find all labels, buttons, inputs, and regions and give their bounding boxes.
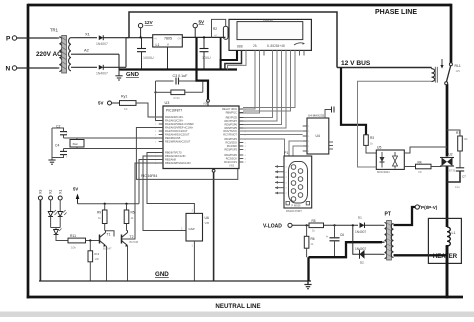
svg-text:0.1u: 0.1u bbox=[455, 186, 460, 189]
svg-text:RA0/AN0/C1IN-: RA0/AN0/C1IN- bbox=[165, 115, 183, 119]
terminal X1 bbox=[58, 190, 62, 212]
svg-text:U3: U3 bbox=[165, 101, 170, 105]
svg-text:RE0/RD/AN5: RE0/RD/AN5 bbox=[165, 136, 181, 140]
label PHASE LINE bbox=[375, 9, 417, 16]
svg-text:VSS: VSS bbox=[229, 164, 234, 168]
wire heater inner bbox=[446, 219, 449, 297]
svg-text:TR1: TR1 bbox=[50, 28, 59, 33]
svg-text:P: P bbox=[6, 36, 11, 43]
resistor R5 bbox=[309, 219, 358, 233]
svg-text:X1: X1 bbox=[59, 190, 63, 194]
diode D1 1N4007 bbox=[355, 215, 382, 234]
svg-text:CK: CK bbox=[418, 170, 422, 174]
wire chip to T2 base bbox=[122, 163, 164, 239]
resistor R9 bbox=[97, 204, 107, 231]
svg-text:VDD: VDD bbox=[203, 102, 209, 106]
svg-text:RD6/PSP6: RD6/PSP6 bbox=[224, 123, 237, 127]
wire LCD pin3 bbox=[228, 50, 247, 69]
svg-text:BC548: BC548 bbox=[130, 240, 139, 244]
capacitor C2 bbox=[52, 125, 68, 139]
terminal P I/P-V bbox=[415, 205, 438, 210]
wire phase right mid bbox=[446, 84, 449, 157]
wire GND bus bbox=[119, 68, 237, 70]
wire LCD pin1 gnd bbox=[221, 50, 237, 69]
terminal X2 bbox=[49, 190, 53, 212]
svg-text:RB1/AN10/C12IN: RB1/AN10/C12IN bbox=[165, 154, 185, 158]
label GND bbox=[155, 271, 169, 278]
svg-text:+I: +I bbox=[154, 36, 157, 40]
heater box bbox=[428, 218, 461, 263]
svg-text:25.: 25. bbox=[253, 44, 258, 48]
ground symbol psu bbox=[115, 70, 122, 81]
svg-text:MOC3021: MOC3021 bbox=[377, 170, 390, 174]
wire LCD d4 bbox=[239, 50, 273, 117]
svg-text:R2: R2 bbox=[213, 27, 217, 31]
svg-text:RB6/PGC: RB6/PGC bbox=[226, 111, 238, 115]
wire mains left vertical bbox=[27, 4, 30, 299]
chip VSS wire bbox=[212, 169, 215, 282]
ground symbol bottom bbox=[304, 281, 311, 289]
svg-text:N: N bbox=[6, 66, 11, 73]
LED D5 bbox=[54, 229, 68, 241]
relay RL1 contact bbox=[440, 59, 460, 85]
svg-text:D1: D1 bbox=[358, 215, 362, 219]
resistor R4 bbox=[404, 161, 441, 175]
svg-text:GND: GND bbox=[155, 271, 169, 278]
wire LCD bl1 bbox=[243, 50, 291, 111]
svg-text:R5: R5 bbox=[131, 211, 135, 215]
wire chip pd a bbox=[239, 139, 285, 156]
diode X1 1N4007 bbox=[77, 32, 129, 47]
terminal P bbox=[6, 36, 58, 43]
svg-text:R3: R3 bbox=[370, 136, 374, 140]
svg-text:V/B: V/B bbox=[205, 221, 210, 225]
svg-text:L1: L1 bbox=[452, 231, 456, 235]
svg-text:RC4/SDI: RC4/SDI bbox=[227, 144, 238, 148]
connector P1 DB9 bbox=[275, 151, 312, 213]
svg-text:R 2: R 2 bbox=[95, 252, 100, 256]
svg-text:D2: D2 bbox=[360, 261, 364, 265]
svg-text:1N4007: 1N4007 bbox=[96, 72, 108, 76]
LCD pin stubs bbox=[237, 50, 304, 55]
svg-text:P1: P1 bbox=[284, 151, 288, 155]
wire max to p1 b bbox=[293, 146, 303, 156]
resistor R12 bbox=[88, 241, 100, 282]
svg-text:RD2/PSP2: RD2/PSP2 bbox=[224, 153, 237, 157]
wire chip to U6 in bbox=[143, 156, 186, 231]
wire t1 collector t2 bbox=[106, 231, 115, 237]
wire LCD en bbox=[239, 50, 260, 113]
svg-text:Xtal: Xtal bbox=[73, 142, 78, 146]
wire chip rx bbox=[239, 134, 303, 136]
capacitor C1 1000u bbox=[137, 37, 154, 69]
wire mclr bbox=[136, 103, 163, 117]
wire max to p1 a bbox=[289, 141, 303, 156]
svg-text:R 01: R 01 bbox=[174, 96, 181, 100]
svg-text:12 V BUS: 12 V BUS bbox=[341, 60, 371, 67]
svg-text:RB2/AN8: RB2/AN8 bbox=[165, 158, 176, 162]
svg-text:NEUTRAL LINE: NEUTRAL LINE bbox=[215, 303, 260, 310]
transistor T2 BC548 bbox=[122, 231, 139, 282]
svg-text:888: 888 bbox=[237, 45, 243, 49]
label 12 V BUS bbox=[341, 60, 371, 67]
svg-text:C3 0.1uF: C3 0.1uF bbox=[173, 74, 189, 78]
label HEATER bbox=[433, 254, 458, 260]
svg-text:5V: 5V bbox=[98, 101, 103, 106]
svg-text:RA4/T0CKI/C1OUT: RA4/T0CKI/C1OUT bbox=[165, 129, 188, 133]
capacitor C4 bbox=[52, 144, 68, 160]
svg-text:100: 100 bbox=[95, 257, 100, 261]
svg-text:RC6/TX/CK: RC6/TX/CK bbox=[223, 129, 237, 133]
svg-text:C6: C6 bbox=[340, 233, 344, 237]
svg-text:P(I/P-V): P(I/P-V) bbox=[421, 205, 438, 210]
svg-text:5V: 5V bbox=[199, 20, 206, 25]
resistor R2 bbox=[212, 19, 229, 39]
svg-text:1N4007: 1N4007 bbox=[96, 42, 108, 46]
svg-text:RD3/PSP3: RD3/PSP3 bbox=[224, 148, 237, 152]
svg-text:U6: U6 bbox=[205, 216, 209, 220]
wire center tap bbox=[77, 48, 119, 70]
crystal X1 box bbox=[70, 138, 84, 149]
transformer TR1 bbox=[36, 28, 77, 74]
wire LCD rs bbox=[239, 50, 255, 109]
svg-text:Ry1: Ry1 bbox=[121, 95, 127, 99]
wire chip wrap under bbox=[136, 128, 237, 180]
svg-text:RC3/SCK: RC3/SCK bbox=[226, 157, 238, 161]
diode D2 1N4007 bbox=[353, 225, 382, 264]
svg-text:PHASE LINE: PHASE LINE bbox=[375, 9, 417, 16]
wire LCD pin2 5v bbox=[225, 50, 242, 69]
svg-text:RL1: RL1 bbox=[455, 64, 461, 68]
wire PT primary bottom bbox=[394, 254, 448, 256]
svg-text:12V: 12V bbox=[456, 69, 461, 73]
svg-text:7805: 7805 bbox=[164, 36, 172, 40]
resistor R1 bbox=[154, 81, 202, 100]
svg-text:RA3/AN3/VREF+/C1IN+: RA3/AN3/VREF+/C1IN+ bbox=[165, 126, 194, 130]
svg-text:C7: C7 bbox=[462, 175, 466, 179]
wire led join bbox=[51, 228, 61, 230]
wire chip rb2 bbox=[139, 160, 163, 204]
wire mclr filter bbox=[156, 81, 164, 121]
transformer PT bbox=[382, 212, 394, 261]
svg-text:12V: 12V bbox=[145, 20, 154, 25]
svg-text:100: 100 bbox=[464, 138, 469, 141]
wire LCD d7 bbox=[239, 50, 286, 128]
wire 12V rail bbox=[126, 37, 153, 39]
diode X2 1N4007 bbox=[77, 38, 126, 76]
svg-text:C4: C4 bbox=[55, 144, 59, 148]
svg-text:RC5/SDO: RC5/SDO bbox=[225, 141, 237, 145]
wire chip to U6 top bbox=[147, 153, 194, 214]
svg-text:RE1/WR/AN6/C2OUT: RE1/WR/AN6/C2OUT bbox=[165, 140, 191, 144]
wire r3 to opto bbox=[366, 145, 376, 153]
terminal 5V mclr bbox=[98, 101, 120, 106]
svg-text:R11: R11 bbox=[70, 234, 76, 238]
svg-text:R4: R4 bbox=[418, 161, 422, 165]
capacitor C5 100u bbox=[200, 36, 211, 69]
svg-text:RB0/INT/FLT0: RB0/INT/FLT0 bbox=[165, 151, 182, 155]
capacitor C6 bbox=[326, 225, 344, 257]
decorative bottom band bbox=[0, 312, 474, 318]
wire GND rail bbox=[39, 280, 311, 282]
terminal N bbox=[6, 66, 58, 73]
svg-text:RB3/AN9/PGM/C12IN: RB3/AN9/PGM/C12IN bbox=[165, 161, 191, 165]
svg-text:RA2/AN2/VREF-/CVREF: RA2/AN2/VREF-/CVREF bbox=[165, 122, 194, 126]
terminal 12V bbox=[138, 20, 153, 39]
svg-text:X2: X2 bbox=[49, 190, 53, 194]
svg-text:A2: A2 bbox=[84, 48, 90, 53]
wire phase right lower bbox=[446, 166, 449, 219]
transistor T1 BC547 bbox=[100, 231, 112, 282]
wire 5v rail bottom bbox=[78, 203, 140, 205]
capacitor C3 0.1uF bbox=[156, 74, 208, 85]
svg-text:1K: 1K bbox=[124, 107, 128, 111]
LED D4 bbox=[58, 210, 67, 228]
capacitor C7 bbox=[447, 151, 466, 189]
wire vload gnd bbox=[309, 242, 383, 281]
ground symbol xtal bbox=[48, 158, 55, 165]
wire 5V rail bbox=[182, 36, 225, 38]
wire 5V vdd bbox=[197, 37, 209, 99]
wire 12V drop to opto bbox=[341, 68, 366, 135]
svg-text:P M936: P M936 bbox=[292, 204, 301, 208]
triac U2 bbox=[440, 153, 456, 173]
svg-text:RA5/AN4/SS/C2OUT: RA5/AN4/SS/C2OUT bbox=[165, 133, 190, 137]
wire phase right bottom bbox=[446, 245, 449, 298]
svg-text:O+: O+ bbox=[178, 36, 182, 40]
wire LCD bl2 bbox=[243, 50, 295, 107]
svg-text:BT36: BT36 bbox=[449, 169, 456, 173]
wire 12V bus bbox=[337, 67, 432, 69]
svg-text:X3: X3 bbox=[39, 190, 43, 194]
inductor L1 heater bbox=[447, 227, 456, 246]
LED D3 bbox=[48, 210, 57, 228]
svg-text:5V: 5V bbox=[73, 187, 78, 192]
svg-text:RELAY /RC0: RELAY /RC0 bbox=[222, 107, 237, 111]
svg-text:1N4007: 1N4007 bbox=[355, 247, 366, 251]
terminal V-LOAD bbox=[263, 223, 309, 229]
wire osc1 bbox=[64, 137, 164, 139]
chip VDD pin bbox=[203, 99, 209, 106]
svg-text:M: M bbox=[167, 43, 169, 47]
svg-text:V-LOAD: V-LOAD bbox=[263, 223, 282, 229]
resistor Ry1 bbox=[120, 95, 137, 112]
svg-text:R7: R7 bbox=[456, 131, 460, 135]
wire phase line top bbox=[28, 4, 451, 7]
svg-text:U5: U5 bbox=[377, 146, 381, 150]
svg-text:100U: 100U bbox=[202, 56, 211, 60]
svg-text:U4: U4 bbox=[316, 134, 320, 138]
IC U6 bbox=[181, 210, 209, 282]
svg-text:RD7/PSP7: RD7/PSP7 bbox=[224, 119, 237, 123]
wire neutral line bottom bbox=[27, 296, 463, 299]
svg-text:10k: 10k bbox=[71, 246, 76, 250]
svg-text:+: + bbox=[326, 235, 328, 239]
wire osc2 bbox=[64, 148, 164, 150]
wire rail drop bbox=[220, 38, 222, 60]
svg-text:RA1/AN1/C2IN-: RA1/AN1/C2IN- bbox=[165, 119, 183, 123]
svg-text:R9: R9 bbox=[97, 211, 101, 215]
svg-text:U4 MAX232: U4 MAX232 bbox=[308, 114, 325, 118]
svg-text:T1: T1 bbox=[107, 233, 111, 237]
svg-text:U2: U2 bbox=[449, 153, 453, 157]
svg-text:HEATER: HEATER bbox=[433, 254, 458, 260]
wire chip tx bbox=[239, 130, 303, 132]
wire LCD d6 bbox=[239, 50, 282, 124]
svg-text:RC7/RX/DT: RC7/RX/DT bbox=[223, 133, 237, 137]
wire xtal gnd rail bbox=[51, 128, 53, 158]
svg-text:R5: R5 bbox=[312, 219, 316, 223]
wire phase right upper bbox=[450, 4, 453, 63]
svg-text:8..85284+48: 8..85284+48 bbox=[267, 44, 285, 48]
svg-text:RB7/PGD: RB7/PGD bbox=[226, 116, 238, 120]
resistor R11 bbox=[68, 234, 100, 250]
regulator U1 7805 bbox=[153, 35, 183, 70]
svg-text:T2: T2 bbox=[130, 235, 134, 239]
svg-text:BC547: BC547 bbox=[103, 247, 112, 251]
resistor R6 bbox=[304, 225, 315, 257]
svg-text:PT: PT bbox=[385, 212, 391, 218]
wire opto to phase bbox=[404, 147, 447, 153]
optocoupler U5 MOC3021 bbox=[376, 146, 404, 175]
wire relay net to opto bbox=[358, 81, 432, 167]
wire 12V loop bbox=[129, 12, 337, 68]
svg-text:GND: GND bbox=[126, 72, 139, 78]
relay RL1 coil bbox=[432, 67, 438, 83]
svg-text:RC2/CCP1: RC2/CCP1 bbox=[224, 160, 237, 164]
svg-text:220V AC: 220V AC bbox=[36, 51, 62, 58]
svg-text:LCD16: LCD16 bbox=[263, 18, 273, 22]
wire LCD d5 bbox=[239, 50, 277, 121]
svg-text:RD4/PSP4: RD4/PSP4 bbox=[224, 137, 237, 141]
svg-text:X1: X1 bbox=[85, 32, 91, 37]
label NEUTRAL LINE bbox=[215, 303, 260, 310]
svg-text:CAP: CAP bbox=[189, 227, 195, 231]
resistor R10 bbox=[124, 204, 135, 231]
wire PT primary top bbox=[394, 207, 416, 225]
svg-text:PIC16F877: PIC16F877 bbox=[166, 109, 182, 113]
resistor R7 bbox=[447, 130, 468, 151]
svg-text:L1: L1 bbox=[156, 43, 160, 47]
LCD module LCD16x2 bbox=[229, 18, 311, 50]
svg-text:1N4007: 1N4007 bbox=[355, 230, 366, 234]
microcontroller U3 bbox=[141, 101, 247, 178]
svg-text:RS232 PORT: RS232 PORT bbox=[286, 209, 302, 213]
resistor R3 bbox=[364, 135, 375, 146]
svg-text:R6: R6 bbox=[311, 237, 315, 241]
svg-text:1000U: 1000U bbox=[143, 56, 154, 60]
terminal X3 bbox=[38, 190, 42, 281]
terminal 5V bbox=[193, 20, 205, 38]
label GND psu bbox=[126, 72, 139, 78]
terminal 5V bottom bbox=[73, 187, 79, 204]
IC U4 MAX232 bbox=[303, 107, 334, 155]
